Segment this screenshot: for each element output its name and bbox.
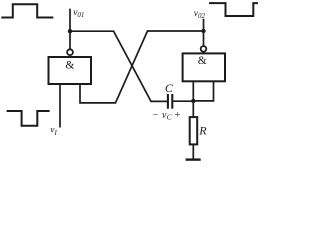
wire: right gate input 1 down through node to resistor top [192,81,194,117]
capacitor C plates [168,94,172,109]
svg-text:R: R [198,124,207,138]
gate U2 inversion bubble [201,46,207,52]
svg-text:C: C [165,81,174,95]
wire: v02 node to left-gate input (cross wire B) [80,31,204,103]
ground [186,158,201,160]
waveform: top-left positive pulse [2,4,52,17]
wire: right gate input 2 down and left to node [193,81,213,101]
wire: v01 node to right-gate input (cross wire A) [70,31,167,101]
resistor R box [190,117,198,144]
wire: resistor bottom to ground [192,144,194,159]
svg-text:−: − [153,110,159,121]
node v01 junction dot [68,29,72,33]
gate U2 (NAND gate right) box [183,53,225,81]
node v02 junction dot [201,29,205,33]
wire: left gate input 1 down to vI terminal [59,84,61,127]
wire: v02 stem from label to gate U2 bubble [203,20,205,47]
svg-text:+: + [175,110,181,121]
waveform: left input negative pulse [8,111,49,126]
node C-R junction dot [191,99,195,103]
wire: v01 stem from label to gate U1 bubble [69,10,71,50]
op-amp U1 (NAND gate left) box [49,57,92,84]
wire: capacitor right plate to node [173,100,193,102]
waveform: top-right negative pulse [210,3,258,16]
svg-text:&: & [65,59,74,71]
svg-text:&: & [198,55,207,67]
gate U1 inversion bubble [67,49,73,55]
